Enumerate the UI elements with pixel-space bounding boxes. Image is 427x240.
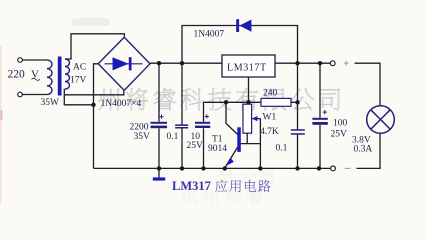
watermark remnant bottom xyxy=(219,168,274,184)
svg-text:T1: T1 xyxy=(212,135,223,145)
wire LM317 out xyxy=(275,62,330,64)
wire ADJ pin xyxy=(248,77,250,104)
capacitor C3 10uF/25V xyxy=(203,102,205,168)
svg-text:17V: 17V xyxy=(70,76,87,86)
svg-text:100: 100 xyxy=(333,119,348,129)
svg-text:W1: W1 xyxy=(263,113,277,123)
wire to lamp top xyxy=(355,63,381,106)
bridge internal diode xyxy=(113,57,129,70)
bottom rail xyxy=(94,167,331,169)
plus marker xyxy=(344,61,349,66)
wire secondary top to bridge xyxy=(65,34,124,59)
junction secondary/negative xyxy=(91,103,95,107)
wire bypass loop xyxy=(182,26,298,64)
junction collector xyxy=(224,100,228,104)
transformer core xyxy=(58,57,62,96)
svg-text:LM317: LM317 xyxy=(172,179,211,193)
lamp load xyxy=(367,106,395,134)
svg-text:2200: 2200 xyxy=(130,123,149,133)
transformer T1 primary coil xyxy=(47,60,52,94)
capacitor C1 2200uF/35V xyxy=(158,63,160,168)
svg-text:220: 220 xyxy=(8,69,26,81)
edge artifact strip xyxy=(0,46,1,204)
svg-text:25V: 25V xyxy=(187,141,204,151)
junction C2/bypass top xyxy=(180,61,184,65)
wire lamp bottom xyxy=(357,133,381,168)
transistor emitter xyxy=(225,147,238,169)
wire secondary bottom jog xyxy=(64,89,93,105)
svg-text:9014: 9014 xyxy=(208,144,227,154)
minus marker xyxy=(345,167,351,169)
svg-text:4.7K: 4.7K xyxy=(260,127,279,137)
wire primary bottom xyxy=(22,94,47,96)
ground xyxy=(158,168,160,177)
wire wiper down xyxy=(259,119,261,169)
svg-text:0.1: 0.1 xyxy=(167,132,179,142)
terminal - output xyxy=(331,166,336,171)
junction C1 top xyxy=(157,61,161,65)
diode D1 1N4007 xyxy=(236,19,239,32)
wire ADJ line xyxy=(204,101,298,103)
svg-text:25V: 25V xyxy=(331,130,348,140)
watermark text xyxy=(98,88,340,110)
svg-text:AC: AC xyxy=(73,63,86,73)
terminal input top xyxy=(18,58,23,63)
transistor base bar xyxy=(237,127,241,152)
bridge internal diode lead xyxy=(105,63,143,65)
capacitor C2 0.1 xyxy=(181,63,183,168)
junction out/bypass xyxy=(295,61,299,65)
wire secondary to bridge bottom corner xyxy=(64,91,124,95)
capacitor C4 0.1 output xyxy=(297,63,299,168)
bridge rectifier 1N4007x4 xyxy=(98,37,150,90)
transformer secondary coil xyxy=(65,59,70,89)
junction C5 top xyxy=(318,61,322,65)
svg-text:35W: 35W xyxy=(41,98,60,108)
terminal + output xyxy=(330,61,335,66)
capacitor C5 100uF/25V xyxy=(319,63,321,168)
svg-text:1N4007×4: 1N4007×4 xyxy=(101,99,142,109)
svg-text:240: 240 xyxy=(263,89,278,99)
svg-text:35V: 35V xyxy=(134,132,151,142)
op-amp/regulator U1 LM317T xyxy=(222,55,275,77)
wire bridge negative down left xyxy=(94,64,99,169)
potentiometer W1 4.7K xyxy=(243,104,252,133)
wire primary top xyxy=(22,59,47,61)
svg-text:0.1: 0.1 xyxy=(276,144,288,154)
svg-text:1N4007: 1N4007 xyxy=(194,30,225,40)
wire base xyxy=(241,143,261,145)
resistor 240 xyxy=(261,98,291,106)
watermark remnant top xyxy=(72,18,110,26)
transistor T1 9014 collector xyxy=(226,102,238,134)
junction ADJ/pot xyxy=(246,100,250,104)
junction 240/out column xyxy=(295,100,299,104)
wire pot bottom xyxy=(246,133,248,143)
terminal input bottom xyxy=(18,92,23,97)
svg-text:0.3A: 0.3A xyxy=(354,145,373,155)
wire bridge positive to LM317 xyxy=(150,62,222,64)
svg-text:LM317T: LM317T xyxy=(227,63,267,74)
